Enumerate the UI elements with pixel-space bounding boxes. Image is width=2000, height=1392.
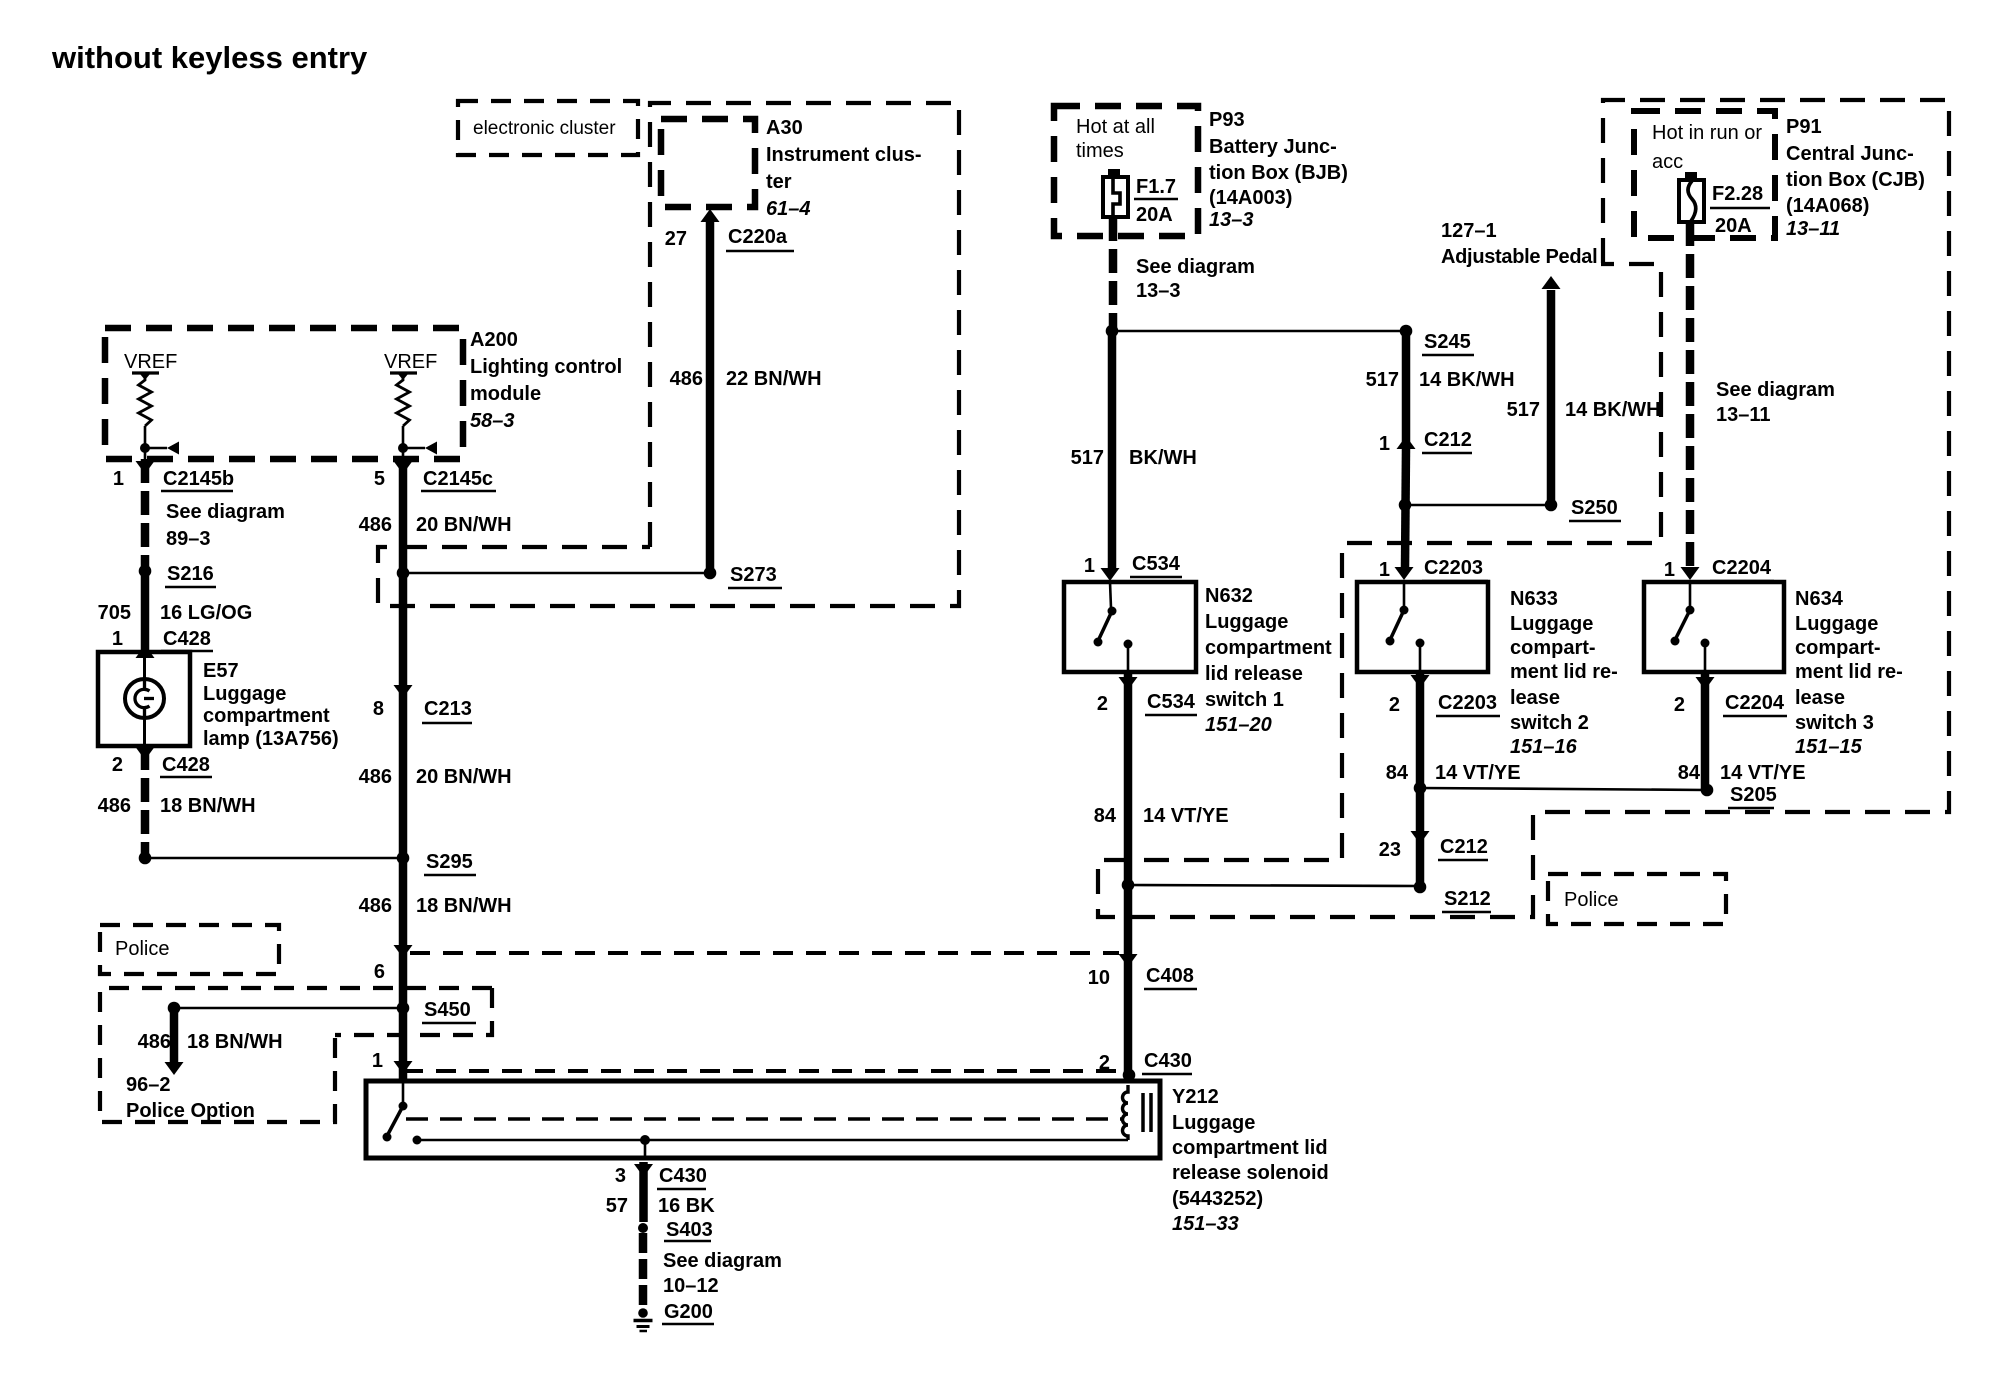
wire label 486 18 BN/WH police xyxy=(138,1031,283,1053)
svg-text:compartment: compartment xyxy=(203,705,330,727)
arrow into A30 pin 27 xyxy=(701,209,720,222)
svg-text:P93: P93 xyxy=(1209,109,1245,131)
fuse F1.7 xyxy=(1103,169,1128,217)
N632 label xyxy=(1205,585,1332,736)
central junction box P91 xyxy=(1634,111,1775,238)
note See diagram 89-3 xyxy=(166,501,285,550)
arrow A200 pin 1 xyxy=(136,461,155,474)
svg-text:Lighting control: Lighting control xyxy=(470,356,622,378)
svg-text:(14A068): (14A068) xyxy=(1786,195,1869,217)
P93 label xyxy=(1209,109,1348,231)
splice S245 xyxy=(1400,325,1474,355)
svg-text:1: 1 xyxy=(372,1050,383,1072)
svg-text:C2203: C2203 xyxy=(1424,557,1483,579)
svg-text:1: 1 xyxy=(1379,433,1390,455)
svg-text:89–3: 89–3 xyxy=(166,528,211,550)
pin 1 label C2204 xyxy=(1664,557,1774,581)
svg-text:VREF: VREF xyxy=(124,351,177,373)
wire label 486 20 BN/WH lower xyxy=(359,766,512,788)
svg-text:S273: S273 xyxy=(730,564,777,586)
svg-text:C2145b: C2145b xyxy=(163,468,234,490)
note 96-2 Police Option xyxy=(126,1074,255,1122)
wire label 517 14 BK/WH xyxy=(1366,369,1515,391)
arrow into N634 pin 1 xyxy=(1681,567,1700,580)
svg-text:Luggage: Luggage xyxy=(1795,613,1878,635)
svg-text:Luggage: Luggage xyxy=(203,683,286,705)
svg-text:84: 84 xyxy=(1678,762,1701,784)
P93 hot at all times label xyxy=(1076,116,1155,162)
svg-text:(14A003): (14A003) xyxy=(1209,187,1292,209)
arrow to adjustable pedal xyxy=(1542,276,1561,289)
splice S295 xyxy=(397,851,476,875)
wire 486 18 BN/WH to pin 6 xyxy=(399,858,408,1083)
svg-text:ment lid re-: ment lid re- xyxy=(1795,661,1903,683)
lamp E57 box xyxy=(98,652,190,746)
wire 486 20 BN/WH lower xyxy=(399,686,408,858)
svg-text:C213: C213 xyxy=(424,698,472,720)
battery junction box P93 xyxy=(1054,106,1198,236)
wire 486 20 BN/WH upper xyxy=(399,459,408,686)
svg-text:13–3: 13–3 xyxy=(1136,280,1181,302)
pin 1 label C2145b xyxy=(113,468,234,491)
N633 label xyxy=(1510,588,1618,758)
wire from F1.7 dashed xyxy=(1109,217,1118,331)
lighting control module A200 box xyxy=(105,328,463,459)
svg-text:compart-: compart- xyxy=(1510,637,1596,659)
svg-text:C212: C212 xyxy=(1440,836,1488,858)
pin 1 label C212 xyxy=(1379,429,1472,455)
svg-text:14 VT/YE: 14 VT/YE xyxy=(1720,762,1806,784)
Y212 switch xyxy=(383,1083,422,1145)
svg-text:18 BN/WH: 18 BN/WH xyxy=(160,795,256,817)
svg-text:151–20: 151–20 xyxy=(1205,714,1272,736)
arrow pin 6 xyxy=(394,945,413,958)
solenoid Y212 box xyxy=(366,1081,1160,1158)
Y212 linkage dashed xyxy=(406,1117,1122,1120)
pin 3 label C430 xyxy=(615,1165,707,1189)
note 127-1 Adjustable Pedal xyxy=(1441,220,1597,268)
svg-text:20 BN/WH: 20 BN/WH xyxy=(416,514,512,536)
svg-text:lease: lease xyxy=(1795,687,1845,709)
svg-text:switch 3: switch 3 xyxy=(1795,712,1874,734)
junction at S295 branch xyxy=(139,852,403,865)
pin 2 label C534 xyxy=(1097,691,1197,715)
A30 label xyxy=(766,117,922,220)
pin 8 label C213 xyxy=(373,698,472,723)
svg-text:BK/WH: BK/WH xyxy=(1129,447,1197,469)
pin 2 label C428 xyxy=(112,754,212,777)
svg-text:P91: P91 xyxy=(1786,116,1822,138)
svg-text:A30: A30 xyxy=(766,117,803,139)
N634 label xyxy=(1795,588,1903,758)
arrow into N633 pin 1 xyxy=(1395,567,1414,580)
svg-text:14 VT/YE: 14 VT/YE xyxy=(1143,805,1229,827)
svg-text:release solenoid: release solenoid xyxy=(1172,1162,1329,1184)
svg-text:C2204: C2204 xyxy=(1712,557,1772,579)
splice S216 xyxy=(139,563,216,587)
switch N632 box xyxy=(1064,582,1196,672)
svg-text:84: 84 xyxy=(1094,805,1117,827)
svg-text:Luggage: Luggage xyxy=(1205,611,1288,633)
electronic cluster box xyxy=(458,101,638,155)
wire label 705 16 LG/OG xyxy=(98,602,253,624)
svg-text:S450: S450 xyxy=(424,999,471,1021)
svg-text:Police: Police xyxy=(115,938,169,960)
svg-text:10–12: 10–12 xyxy=(663,1275,719,1297)
fuse F2.28 label xyxy=(1710,183,1770,237)
svg-text:84: 84 xyxy=(1386,762,1409,784)
adjustable pedal wire 517 14 BK/WH xyxy=(1547,290,1556,505)
splice S273 xyxy=(397,564,782,588)
arrow A200 pin 5 xyxy=(394,461,413,474)
svg-text:Instrument clus-: Instrument clus- xyxy=(766,144,922,166)
svg-text:27: 27 xyxy=(665,228,687,250)
svg-text:20A: 20A xyxy=(1136,204,1173,226)
svg-text:C428: C428 xyxy=(162,754,210,776)
svg-text:S245: S245 xyxy=(1424,331,1471,353)
svg-text:ment lid re-: ment lid re- xyxy=(1510,661,1618,683)
svg-text:517: 517 xyxy=(1366,369,1399,391)
svg-text:2: 2 xyxy=(1674,694,1685,716)
svg-text:1: 1 xyxy=(113,468,124,490)
svg-text:tion Box (BJB): tion Box (BJB) xyxy=(1209,162,1348,184)
svg-text:151–15: 151–15 xyxy=(1795,736,1863,758)
svg-text:Hot in run or: Hot in run or xyxy=(1652,122,1762,144)
svg-text:486: 486 xyxy=(359,766,392,788)
arrow pin 10 C408 xyxy=(1119,954,1138,967)
splice S403 xyxy=(638,1219,713,1241)
lamp E57 symbol xyxy=(125,652,164,746)
svg-text:N632: N632 xyxy=(1205,585,1253,607)
svg-text:20 BN/WH: 20 BN/WH xyxy=(416,766,512,788)
wire label 486 22 BN/WH xyxy=(670,368,822,390)
svg-text:486: 486 xyxy=(359,895,392,917)
wire 486 18 BN/WH police option xyxy=(170,1008,179,1062)
svg-text:Adjustable Pedal: Adjustable Pedal xyxy=(1441,246,1597,268)
svg-text:Battery Junc-: Battery Junc- xyxy=(1209,136,1337,158)
svg-text:acc: acc xyxy=(1652,151,1683,173)
police box right xyxy=(1548,874,1726,924)
svg-text:G200: G200 xyxy=(664,1301,713,1323)
pin 10 label C408 xyxy=(1088,965,1197,989)
svg-text:58–3: 58–3 xyxy=(470,410,515,432)
svg-text:1: 1 xyxy=(1379,559,1390,581)
svg-text:Hot at all: Hot at all xyxy=(1076,116,1155,138)
svg-text:486: 486 xyxy=(670,368,703,390)
svg-text:N634: N634 xyxy=(1795,588,1844,610)
pin 2 label C2204 xyxy=(1674,692,1787,716)
svg-text:1: 1 xyxy=(112,628,123,650)
note See diagram 13-11 xyxy=(1716,379,1835,426)
instrument cluster dashed boundary xyxy=(378,103,959,606)
svg-text:18 BN/WH: 18 BN/WH xyxy=(416,895,512,917)
switch N634 box xyxy=(1644,582,1784,672)
svg-text:ter: ter xyxy=(766,171,792,193)
svg-text:13–11: 13–11 xyxy=(1716,404,1771,426)
svg-text:Central Junc-: Central Junc- xyxy=(1786,143,1914,165)
E57 label xyxy=(203,660,339,750)
svg-text:C430: C430 xyxy=(659,1165,707,1187)
pin 23 label C212 xyxy=(1379,836,1488,861)
svg-text:electronic cluster: electronic cluster xyxy=(473,118,616,139)
svg-text:F1.7: F1.7 xyxy=(1136,176,1176,198)
svg-text:5: 5 xyxy=(374,468,385,490)
svg-text:compartment lid: compartment lid xyxy=(1172,1137,1328,1159)
svg-text:Luggage: Luggage xyxy=(1172,1112,1255,1134)
svg-text:C2145c: C2145c xyxy=(423,468,493,490)
wire label 84 14 VT/YE N634 xyxy=(1678,762,1806,784)
svg-text:module: module xyxy=(470,383,541,405)
arrow E57 pin 2 xyxy=(136,747,155,760)
svg-text:14 BK/WH: 14 BK/WH xyxy=(1565,399,1661,421)
wire label 486 20 BN/WH upper xyxy=(359,514,512,536)
svg-text:96–2: 96–2 xyxy=(126,1074,171,1096)
wire 705 16 LG/OG xyxy=(141,571,150,650)
svg-text:switch 1: switch 1 xyxy=(1205,689,1284,711)
switch N633 contacts xyxy=(1386,582,1425,672)
svg-text:A200: A200 xyxy=(470,329,518,351)
arrow pin 23 C212 xyxy=(1411,831,1430,844)
svg-text:switch 2: switch 2 xyxy=(1510,712,1589,734)
svg-text:20A: 20A xyxy=(1715,215,1752,237)
arrow N632 pin 2 xyxy=(1119,677,1138,690)
svg-text:14 BK/WH: 14 BK/WH xyxy=(1419,369,1515,391)
dashed police wire to C430 junction xyxy=(403,1069,1120,1073)
pin 1 label C2203 xyxy=(1379,557,1488,581)
svg-text:VREF: VREF xyxy=(384,351,437,373)
wire 486 18 BN/WH lamp to S295 xyxy=(141,746,150,858)
ground G200 symbol xyxy=(634,1308,653,1331)
svg-text:S250: S250 xyxy=(1571,497,1618,519)
junction S212 branch xyxy=(1122,879,1421,892)
wire label 486 18 BN/WH xyxy=(98,795,256,817)
switch N634 contacts xyxy=(1671,582,1710,672)
svg-text:S205: S205 xyxy=(1730,784,1777,806)
svg-text:705: 705 xyxy=(98,602,131,624)
svg-text:See diagram: See diagram xyxy=(1136,256,1255,278)
Y212 label xyxy=(1172,1086,1329,1235)
wire 84 14 VT/YE from N634 xyxy=(1701,672,1710,790)
switch N632 contacts xyxy=(1094,582,1133,672)
wire label 57 16 BK xyxy=(606,1195,715,1217)
pin 2 label C2203 xyxy=(1389,692,1500,716)
svg-text:Police: Police xyxy=(1564,889,1618,911)
svg-text:2: 2 xyxy=(112,754,123,776)
arrow into E57 pin 1 xyxy=(136,645,155,658)
svg-text:S212: S212 xyxy=(1444,888,1491,910)
pin 1 label C428 xyxy=(112,628,213,651)
svg-text:23: 23 xyxy=(1379,839,1401,861)
junction to S245 xyxy=(1106,325,1406,338)
svg-text:13–3: 13–3 xyxy=(1209,209,1254,231)
arrow Y212 pin 3 xyxy=(634,1164,653,1177)
arrow N634 pin 2 xyxy=(1696,677,1715,690)
splice S250 xyxy=(1399,497,1621,521)
svg-text:lamp (13A756): lamp (13A756) xyxy=(203,728,339,750)
svg-text:10: 10 xyxy=(1088,967,1110,989)
wire label 517 BK/WH xyxy=(1071,447,1197,469)
svg-text:E57: E57 xyxy=(203,660,239,682)
svg-text:lease: lease xyxy=(1510,687,1560,709)
svg-text:C534: C534 xyxy=(1147,691,1196,713)
arrow C212 pin 1 xyxy=(1397,436,1416,449)
svg-text:3: 3 xyxy=(615,1165,626,1187)
switch N633 box xyxy=(1357,582,1488,672)
svg-text:C428: C428 xyxy=(163,628,211,650)
wire 57 16 BK xyxy=(639,1162,648,1222)
P91 label xyxy=(1786,116,1925,240)
svg-text:tion Box (CJB): tion Box (CJB) xyxy=(1786,169,1925,191)
svg-text:22 BN/WH: 22 BN/WH xyxy=(726,368,822,390)
arrow pin 8 C213 xyxy=(394,685,413,698)
svg-text:8: 8 xyxy=(373,698,384,720)
pin 5 label C2145c xyxy=(374,468,496,491)
instrument cluster A30 box xyxy=(661,119,755,207)
wire label 486 18 BN/WH lower xyxy=(359,895,512,917)
svg-text:S216: S216 xyxy=(167,563,214,585)
fuse F1.7 label xyxy=(1134,176,1178,226)
svg-text:57: 57 xyxy=(606,1195,628,1217)
svg-text:Y212: Y212 xyxy=(1172,1086,1219,1108)
police box xyxy=(100,925,279,974)
svg-text:2: 2 xyxy=(1389,694,1400,716)
svg-text:18 BN/WH: 18 BN/WH xyxy=(187,1031,283,1053)
svg-text:486: 486 xyxy=(138,1031,171,1053)
splice S450 xyxy=(174,999,476,1023)
junction police option branch xyxy=(168,1002,181,1015)
svg-text:16 BK: 16 BK xyxy=(658,1195,715,1217)
pin 2 label C430 xyxy=(1099,1050,1192,1074)
arrow police option xyxy=(165,1062,184,1075)
svg-text:151–33: 151–33 xyxy=(1172,1213,1239,1235)
wire label 84 14 VT/YE N633 xyxy=(1386,762,1521,784)
svg-text:2: 2 xyxy=(1097,693,1108,715)
svg-text:2: 2 xyxy=(1099,1052,1110,1074)
svg-text:S403: S403 xyxy=(666,1219,713,1241)
VREF resistor right (A200 internal) xyxy=(384,351,437,459)
VREF resistor left (A200 internal) xyxy=(124,351,179,459)
svg-text:61–4: 61–4 xyxy=(766,198,811,220)
wire 517 14 BK/WH upper xyxy=(1402,331,1411,448)
wire label 84 14 VT/YE xyxy=(1094,805,1229,827)
pin 1 label C534 xyxy=(1084,553,1182,577)
svg-text:1: 1 xyxy=(1664,559,1675,581)
svg-text:See diagram: See diagram xyxy=(663,1250,782,1272)
fuse F2.28 xyxy=(1679,172,1704,222)
wire from F2.28 dashed xyxy=(1686,222,1695,568)
wire C2145b dashed segment xyxy=(141,459,150,571)
wire label 517 14 BK/WH pedal xyxy=(1507,399,1661,421)
svg-text:C2203: C2203 xyxy=(1438,692,1497,714)
svg-text:Police Option: Police Option xyxy=(126,1100,255,1122)
note See diagram 13-3 xyxy=(1136,256,1255,302)
svg-text:See diagram: See diagram xyxy=(1716,379,1835,401)
svg-text:C212: C212 xyxy=(1424,429,1472,451)
P91 hot in run label xyxy=(1652,122,1762,173)
wire 84 14 VT/YE from N632 xyxy=(1124,672,1133,1078)
svg-text:C534: C534 xyxy=(1132,553,1181,575)
splice S205 xyxy=(1414,782,1777,808)
Y212 coil xyxy=(1123,1085,1152,1140)
note See diagram 10-12 xyxy=(663,1250,782,1297)
dashed police wire to C408 xyxy=(410,951,1119,955)
svg-text:151–16: 151–16 xyxy=(1510,736,1578,758)
police option dashed boundary xyxy=(100,988,492,1122)
svg-text:6: 6 xyxy=(374,961,385,983)
svg-text:times: times xyxy=(1076,140,1124,162)
wire 486 22 BN/WH from A30 to S273 xyxy=(706,222,715,573)
svg-text:compartment: compartment xyxy=(1205,637,1332,659)
splice S212 xyxy=(1414,881,1491,912)
svg-text:F2.28: F2.28 xyxy=(1712,183,1763,205)
svg-text:Luggage: Luggage xyxy=(1510,613,1593,635)
svg-text:C430: C430 xyxy=(1144,1050,1192,1072)
svg-text:compart-: compart- xyxy=(1795,637,1881,659)
junction C430 pin 2 xyxy=(1123,1069,1136,1082)
svg-text:without keyless entry: without keyless entry xyxy=(51,40,368,75)
Y212 internal wire xyxy=(417,1135,1128,1158)
svg-text:14 VT/YE: 14 VT/YE xyxy=(1435,762,1521,784)
svg-text:C2204: C2204 xyxy=(1725,692,1785,714)
svg-text:127–1: 127–1 xyxy=(1441,220,1497,242)
arrow pin 1 Y212 xyxy=(394,1061,413,1074)
ground G200 label xyxy=(662,1301,714,1324)
wire to G200 dashed xyxy=(639,1233,648,1310)
arrow N633 pin 2 xyxy=(1411,675,1430,688)
svg-text:13–11: 13–11 xyxy=(1786,218,1840,240)
svg-text:See diagram: See diagram xyxy=(166,501,285,523)
svg-text:16 LG/OG: 16 LG/OG xyxy=(160,602,252,624)
svg-text:517: 517 xyxy=(1071,447,1104,469)
P91 outer dashed boundary xyxy=(1098,100,1949,917)
svg-text:1: 1 xyxy=(1084,555,1095,577)
svg-text:lid release: lid release xyxy=(1205,663,1303,685)
svg-text:486: 486 xyxy=(98,795,131,817)
svg-text:486: 486 xyxy=(359,514,392,536)
svg-text:C220a: C220a xyxy=(728,226,788,248)
svg-text:(5443252): (5443252) xyxy=(1172,1188,1263,1210)
wire 517 BK/WH xyxy=(1108,331,1117,568)
A200 label xyxy=(470,329,622,432)
wire 84 14 VT/YE from N633 xyxy=(1416,672,1425,887)
svg-text:C408: C408 xyxy=(1146,965,1194,987)
wire C212 to N633 xyxy=(1405,448,1406,568)
pin 27 label C220a xyxy=(665,226,794,251)
arrow into N632 pin 1 xyxy=(1101,568,1120,581)
svg-text:517: 517 xyxy=(1507,399,1540,421)
svg-text:N633: N633 xyxy=(1510,588,1558,610)
svg-text:S295: S295 xyxy=(426,851,473,873)
